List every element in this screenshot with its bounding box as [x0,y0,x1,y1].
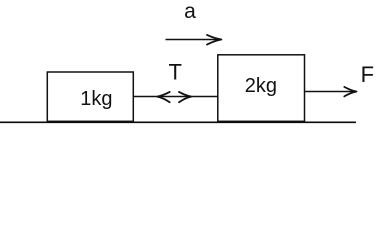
svg-text:a: a [184,0,196,23]
svg-text:1kg: 1kg [80,88,112,110]
svg-text:T: T [168,60,181,85]
svg-text:2kg: 2kg [245,75,277,97]
svg-text:F: F [361,62,374,87]
